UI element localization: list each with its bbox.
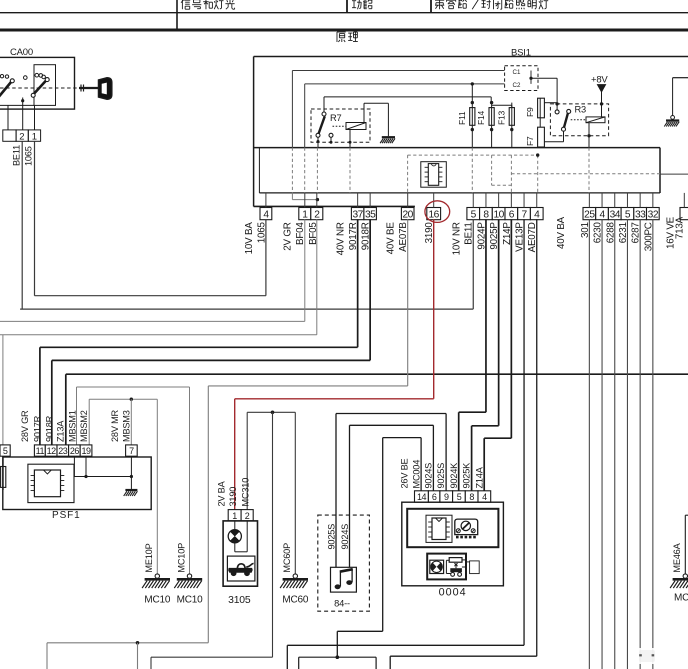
svg-text:1: 1: [32, 131, 37, 142]
svg-text:9018R: 9018R: [44, 415, 54, 442]
svg-text:MC46: MC46: [674, 593, 688, 604]
svg-text:MC10P: MC10P: [176, 543, 186, 573]
svg-text:MC310: MC310: [240, 478, 250, 507]
svg-text:2: 2: [245, 511, 250, 521]
svg-text:20: 20: [403, 210, 414, 221]
svg-text:MBSM1: MBSM1: [67, 410, 77, 442]
svg-text:35: 35: [365, 210, 376, 221]
svg-text:26: 26: [70, 446, 80, 456]
svg-text:MBSM3: MBSM3: [122, 410, 132, 442]
svg-text:9017R: 9017R: [33, 415, 43, 442]
svg-text:9: 9: [444, 492, 449, 502]
svg-text:5: 5: [471, 210, 477, 221]
svg-text:MC10: MC10: [177, 595, 204, 606]
svg-text:40V BA: 40V BA: [556, 216, 567, 249]
svg-text:3190: 3190: [228, 487, 238, 507]
svg-text:713A: 713A: [675, 216, 686, 239]
svg-text:10V NR: 10V NR: [451, 222, 462, 255]
svg-text:ME10P: ME10P: [144, 543, 154, 572]
svg-text:MC60P: MC60P: [282, 543, 292, 573]
svg-text:Z14A: Z14A: [474, 466, 484, 488]
svg-text:R3: R3: [575, 105, 587, 115]
svg-text:8: 8: [469, 492, 474, 502]
svg-text:F14: F14: [476, 110, 486, 125]
svg-text:MBSM2: MBSM2: [79, 410, 89, 442]
svg-text:1065: 1065: [24, 146, 34, 166]
svg-text:26V BE: 26V BE: [400, 458, 410, 488]
svg-text:11: 11: [36, 446, 45, 456]
svg-text:6: 6: [432, 492, 437, 502]
svg-text:25: 25: [584, 210, 595, 221]
svg-text:MC10: MC10: [144, 595, 171, 606]
svg-text:28V MR: 28V MR: [110, 409, 120, 442]
svg-text:10: 10: [493, 210, 504, 221]
svg-text:16: 16: [429, 210, 440, 221]
svg-text:14: 14: [417, 492, 427, 502]
svg-text:1: 1: [232, 511, 237, 521]
svg-text:8: 8: [483, 210, 489, 221]
svg-text:4: 4: [534, 210, 540, 221]
svg-text:40V NR: 40V NR: [336, 222, 347, 255]
svg-text:CA00: CA00: [10, 47, 33, 58]
svg-text:9025S: 9025S: [327, 524, 337, 550]
svg-text:0004: 0004: [439, 587, 467, 599]
svg-text:4: 4: [482, 492, 487, 502]
svg-text:2V GR: 2V GR: [283, 222, 294, 251]
svg-text:R7: R7: [330, 113, 342, 123]
svg-text:C1: C1: [513, 69, 521, 76]
svg-text:23: 23: [58, 446, 68, 456]
svg-text:MC60: MC60: [282, 595, 309, 606]
svg-text:9025S: 9025S: [436, 463, 446, 489]
svg-text:19: 19: [82, 446, 92, 456]
svg-text:Z13A: Z13A: [55, 420, 65, 442]
svg-text:1: 1: [302, 210, 308, 221]
svg-text:F7: F7: [525, 136, 535, 146]
svg-text:2: 2: [19, 131, 24, 142]
svg-text:84--: 84--: [334, 599, 350, 609]
svg-text:40V BE: 40V BE: [386, 222, 397, 255]
svg-text:12: 12: [47, 446, 57, 456]
svg-text:33: 33: [635, 210, 646, 221]
svg-text:C2: C2: [513, 82, 521, 89]
svg-text:PSF1: PSF1: [52, 510, 81, 521]
svg-text:5: 5: [3, 446, 8, 456]
svg-text:32: 32: [648, 210, 659, 221]
svg-text:5: 5: [457, 492, 462, 502]
svg-text:5: 5: [625, 210, 631, 221]
svg-text:7: 7: [129, 446, 134, 456]
svg-text:7: 7: [521, 210, 527, 221]
svg-text:F11: F11: [457, 111, 467, 125]
svg-text:28V GR: 28V GR: [20, 410, 30, 442]
svg-text:37: 37: [352, 210, 363, 221]
svg-text:2: 2: [314, 210, 320, 221]
svg-text:F9: F9: [525, 107, 535, 117]
svg-text:9024K: 9024K: [449, 462, 459, 489]
svg-text:BE11: BE11: [12, 145, 22, 166]
svg-text:34: 34: [610, 210, 621, 221]
svg-text:MC004: MC004: [411, 460, 421, 489]
svg-text:9024S: 9024S: [340, 524, 350, 550]
svg-text:3105: 3105: [228, 595, 251, 606]
svg-text:4: 4: [599, 210, 605, 221]
svg-text:2V BA: 2V BA: [217, 480, 227, 506]
svg-text:9024S: 9024S: [424, 463, 434, 489]
svg-text:F13: F13: [496, 110, 506, 125]
svg-text:6: 6: [509, 210, 515, 221]
svg-text:ME46A: ME46A: [672, 542, 682, 572]
svg-text:9025K: 9025K: [462, 462, 472, 489]
svg-text:+8V: +8V: [591, 75, 608, 86]
svg-text:4: 4: [263, 210, 269, 221]
svg-text:10V BA: 10V BA: [244, 222, 255, 255]
